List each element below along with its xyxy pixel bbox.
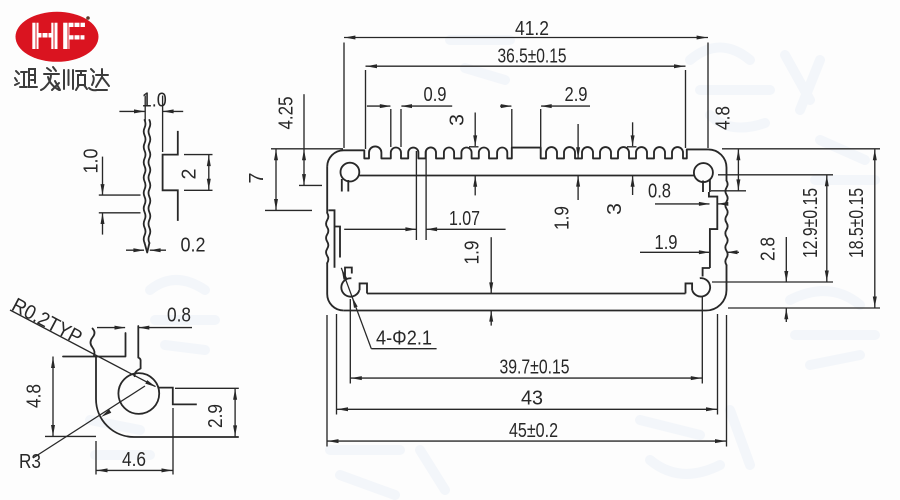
left inner wall: [328, 210, 334, 267]
svg-text:4.6: 4.6: [122, 449, 146, 471]
svg-text:1.9: 1.9: [462, 241, 484, 265]
right ext shared 2.8/12.9 bottom: [712, 281, 833, 283]
svg-text:45±0.2: 45±0.2: [509, 420, 558, 442]
profile right wall wavy: [725, 181, 727, 265]
inner bottom wall line: [367, 293, 686, 295]
label 4-dia2.1 leader: [371, 348, 436, 350]
svg-text:4.25: 4.25: [276, 97, 298, 130]
profile right wall lower and bottom: [344, 265, 727, 311]
detail-B break squiggle: [91, 329, 95, 356]
dim 1.0 left ext ticks: [99, 194, 141, 196]
profile left wall wavy: [326, 213, 328, 263]
detail-A wavy wall band: [144, 120, 146, 243]
svg-text:R3: R3: [19, 451, 41, 473]
logo HF ellipse: [16, 12, 99, 62]
svg-text:43: 43: [521, 388, 543, 410]
svg-text:18.5±0.15: 18.5±0.15: [846, 188, 868, 258]
company name hanzi: [15, 67, 109, 90]
svg-text:36.5±0.15: 36.5±0.15: [498, 46, 567, 68]
svg-text:7: 7: [246, 173, 268, 184]
right ext bottom 18.5: [728, 307, 880, 309]
right ext 12.9 top: [718, 174, 833, 176]
svg-text:0.8: 0.8: [648, 181, 671, 203]
profile bottom-left corner: [327, 263, 344, 311]
svg-text:3: 3: [604, 203, 626, 215]
svg-text:HF: HF: [30, 16, 87, 58]
boss bottom-right: [703, 268, 710, 277]
profile left wall upper: [326, 167, 328, 213]
svg-text:2: 2: [179, 169, 201, 180]
detail-B right step: [158, 388, 197, 405]
detail-B outer corner R3: [96, 357, 239, 438]
detail-B screw hole circle: [118, 373, 159, 414]
svg-text:0.9: 0.9: [424, 84, 447, 106]
svg-text:4.8: 4.8: [24, 384, 46, 408]
svg-text:0.2: 0.2: [181, 235, 206, 257]
dim 1.0 top ext lines: [144, 96, 146, 122]
inner top wall line: [360, 175, 695, 177]
watermark: [90, 40, 875, 495]
right ext top 18.5: [722, 148, 880, 150]
logo trademark dot: [86, 16, 90, 20]
svg-text:39.7±0.15: 39.7±0.15: [500, 357, 570, 379]
label R0.2TYP leader: [10, 310, 156, 387]
svg-text:12.9±0.15: 12.9±0.15: [800, 188, 822, 258]
svg-text:1.9: 1.9: [552, 206, 574, 230]
svg-text:2.9: 2.9: [565, 84, 588, 106]
boss top-right: [694, 163, 713, 182]
detail-B corner outline: [63, 356, 126, 358]
svg-text:1.9: 1.9: [655, 232, 678, 254]
svg-text:R0.2TYP: R0.2TYP: [8, 294, 85, 349]
svg-text:0.8: 0.8: [167, 305, 191, 327]
svg-text:4-Φ2.1: 4-Φ2.1: [376, 328, 432, 350]
svg-text:1.07: 1.07: [449, 208, 480, 230]
right inner wall: [709, 192, 717, 268]
profile outer outline: [327, 146, 726, 180]
svg-text:1.0: 1.0: [81, 149, 103, 174]
label R3 leader: [33, 386, 145, 458]
svg-text:3: 3: [447, 114, 469, 126]
boss bottom-left: [345, 268, 352, 278]
svg-text:2.8: 2.8: [758, 237, 780, 261]
svg-text:2.9: 2.9: [205, 404, 227, 428]
boss top-left: [341, 163, 360, 182]
svg-text:4.8: 4.8: [713, 106, 735, 130]
detail-A clip piece: [163, 131, 178, 221]
